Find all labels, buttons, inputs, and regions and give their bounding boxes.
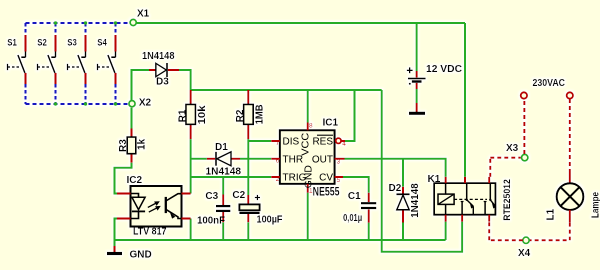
battery 12VDC (407, 23, 462, 89)
svg-text:RTE25012: RTE25012 (502, 179, 512, 221)
wire C2 bottom to ground rail (247, 222, 249, 240)
svg-text:R3: R3 (118, 139, 129, 152)
svg-text:VCC: VCC (301, 133, 312, 156)
resistor R2 (235, 90, 265, 139)
node X2 (129, 101, 135, 107)
optocoupler IC2 LTV817 (117, 175, 191, 238)
svg-text:1k: 1k (136, 138, 147, 150)
wire +12V top rail from X1 (136, 22, 465, 24)
svg-text:LTV 817: LTV 817 (133, 227, 167, 238)
svg-text:X4: X4 (518, 248, 531, 259)
svg-text:D2: D2 (389, 183, 402, 194)
diode D1 (206, 142, 242, 178)
svg-text:IC1: IC1 (323, 118, 339, 129)
svg-text:C1: C1 (348, 191, 361, 202)
svg-text:0,01µ: 0,01µ (343, 213, 362, 224)
svg-text:R2: R2 (235, 109, 246, 122)
svg-text:12 VDC: 12 VDC (426, 64, 462, 75)
wire dashed X4 to relay (489, 222, 523, 241)
terminal 230VAC left (521, 92, 527, 98)
wire battery minus to ground (416, 89, 418, 103)
svg-text:1N4148: 1N4148 (410, 183, 421, 218)
svg-text:5: 5 (337, 177, 341, 184)
IC1 NE555 (271, 118, 346, 199)
svg-text:X2: X2 (139, 98, 152, 109)
wire VCC drop to IC1 pin8 (307, 90, 309, 123)
svg-text:1N4148: 1N4148 (206, 167, 242, 178)
svg-text:3: 3 (337, 159, 341, 166)
wire VCC rail y90 (191, 89, 382, 91)
switch S4 (97, 23, 115, 104)
svg-text:4: 4 (342, 141, 346, 148)
wire vertical x382 rail to ground (381, 90, 383, 240)
wire dashed lamp bottom to X4 (529, 223, 570, 241)
node X1 (130, 19, 136, 25)
wire D2 bottom to ground rail (402, 223, 404, 241)
relay K1 RTE25012 (428, 174, 512, 222)
wire dashed X3 up to 230VAC (523, 99, 525, 154)
svg-text:S4: S4 (97, 38, 107, 49)
svg-text:C2: C2 (232, 190, 245, 201)
wire ground rail (115, 239, 446, 241)
svg-text:1N4148: 1N4148 (142, 51, 175, 62)
svg-text:X1: X1 (137, 9, 150, 20)
switch S1 (7, 23, 25, 104)
wire D2 tap from OUT row (402, 159, 404, 187)
ground symbol battery (409, 103, 425, 113)
wire RES up to VCC rail (345, 90, 355, 141)
switch S3 (67, 23, 85, 104)
wire IC1 GND pin drop (307, 193, 309, 240)
svg-text:100µF: 100µF (257, 215, 283, 226)
svg-text:7: 7 (276, 140, 280, 147)
svg-text:S3: S3 (67, 38, 77, 49)
svg-text:D1: D1 (215, 142, 228, 153)
capacitor C1 (343, 191, 376, 224)
ground symbol left (107, 246, 152, 261)
switch S2 (37, 23, 55, 104)
op-amp U1 pin RES bubble (336, 138, 341, 143)
svg-text:C3: C3 (205, 191, 218, 202)
wire blue dashed top rail X1 (26, 22, 130, 24)
svg-text:D3: D3 (156, 77, 169, 88)
svg-text:100nF: 100nF (197, 216, 225, 227)
wire R3 bottom to IC2 pin1 (115, 163, 132, 194)
wire C3 top tap from TRIG row (222, 177, 224, 195)
wire C1 bottom to ground rail (368, 223, 370, 240)
wire IC2 emitter down to ground rail (190, 219, 192, 241)
svg-text:2: 2 (276, 176, 280, 183)
wire R2 bottom vertical to C2 (247, 139, 249, 195)
wire C3 bottom to ground rail (222, 222, 224, 240)
svg-text:GND: GND (130, 250, 152, 261)
wire ground rail step to relay contact (382, 222, 462, 252)
wire IC2 pin2 to ground (115, 219, 118, 247)
svg-text:RES: RES (312, 137, 333, 148)
wire THR row with D1 (191, 158, 272, 160)
junction dots on dashed rails (54, 21, 117, 105)
svg-text:K1: K1 (428, 174, 441, 185)
diode D2 (389, 183, 421, 223)
diode D3 (142, 51, 179, 88)
svg-text:6: 6 (276, 158, 280, 165)
lamp L1 (546, 170, 600, 223)
svg-text:S1: S1 (7, 38, 17, 49)
wire +12 rail drop to relay contact (464, 23, 466, 177)
svg-text:IC2: IC2 (127, 175, 143, 186)
wire X2 down to R3 (131, 108, 133, 129)
svg-text:GND: GND (303, 165, 314, 188)
wire DIS row (248, 140, 271, 142)
svg-text:L1: L1 (546, 208, 557, 220)
svg-text:NE555: NE555 (313, 186, 340, 198)
wire relay coil bottom to ground rail (445, 222, 447, 240)
resistor R1 (177, 90, 207, 139)
wire dashed X3 to relay (490, 158, 521, 177)
svg-text:1MB: 1MB (254, 104, 265, 124)
capacitor C2 (232, 190, 282, 226)
wire X2 up to D3 row (132, 70, 150, 100)
wire D3 cathode to VCC rail corner (179, 70, 191, 90)
wire CV row to C1 (343, 177, 369, 193)
svg-text:X3: X3 (506, 143, 519, 154)
svg-text:230VAC: 230VAC (533, 78, 566, 89)
svg-text:CV: CV (319, 173, 333, 184)
terminal 230VAC right (567, 92, 573, 98)
svg-text:R1: R1 (177, 109, 188, 122)
wire blue dashed bottom rail X2 (26, 103, 129, 105)
wire dashed 230VAC right down to lamp (569, 99, 571, 170)
wire R1 bottom vertical to IC2 pin4 (190, 139, 192, 193)
node X3 (522, 154, 528, 160)
svg-text:OUT: OUT (312, 154, 333, 165)
svg-text:S2: S2 (37, 38, 47, 49)
resistor R3 (118, 129, 147, 163)
svg-text:8: 8 (309, 123, 313, 130)
wire TRIG row (191, 176, 272, 178)
node X4 (523, 237, 529, 243)
svg-text:Lampe: Lampe (591, 192, 600, 218)
svg-text:DIS: DIS (283, 137, 300, 148)
capacitor C3 (197, 191, 230, 227)
svg-text:10k: 10k (197, 105, 208, 124)
wire OUT row to relay coil (345, 159, 446, 177)
